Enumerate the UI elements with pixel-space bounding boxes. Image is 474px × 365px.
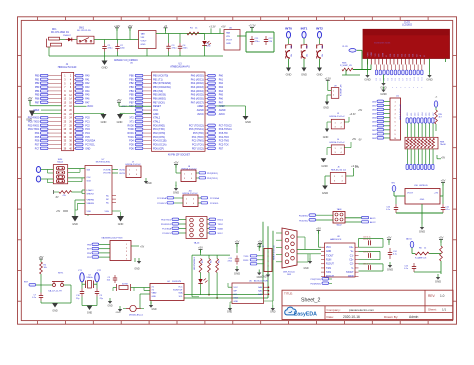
svg-text:PD3(TXD1): PD3(TXD1)	[207, 178, 218, 180]
svg-text:xxxxxxxx xxxx: xxxxxxxx xxxx	[374, 42, 391, 45]
svg-text:HDR-F-2.54 1x10: HDR-F-2.54 1x10	[400, 103, 402, 120]
svg-text:D2: D2	[384, 78, 386, 80]
svg-text:PC7-TOSC2: PC7-TOSC2	[219, 125, 233, 127]
svg-text:VIN: VIN	[141, 37, 145, 39]
svg-text:x: x	[413, 87, 414, 89]
svg-text:PD2(RXD1): PD2(RXD1)	[207, 173, 218, 175]
svg-text:PD3(RXD1): PD3(RXD1)	[310, 284, 321, 286]
svg-text:VCC: VCC	[234, 287, 239, 289]
svg-text:RST: RST	[24, 282, 29, 284]
svg-text:AREF: AREF	[122, 105, 128, 108]
svg-text:GND: GND	[270, 310, 276, 313]
svg-text:+3.3V: +3.3V	[349, 113, 356, 116]
svg-text:XTAL1: XTAL1	[153, 120, 161, 123]
svg-text:VIN: VIN	[391, 183, 395, 185]
svg-text:-5V: -5V	[55, 197, 59, 199]
svg-text:GND: GND	[303, 268, 308, 270]
svg-text:AGND: AGND	[197, 109, 204, 112]
svg-text:470u: 470u	[108, 48, 114, 50]
svg-text:PC6 (TOSC1): PC6 (TOSC1)	[189, 128, 204, 131]
svg-text:LD2: LD2	[415, 113, 417, 116]
svg-text:LD5: LD5	[425, 113, 427, 116]
svg-text:PB3: PB3	[35, 87, 40, 89]
svg-text:47k: 47k	[63, 195, 66, 197]
svg-text:+3.3V: +3.3V	[351, 164, 358, 168]
svg-text:GND: GND	[87, 312, 93, 315]
svg-text:PB2 (INT2/AIN0): PB2 (INT2/AIN0)	[153, 82, 171, 85]
svg-text:PC7/SCL: PC7/SCL	[85, 144, 95, 146]
svg-text:D5: D5	[395, 78, 397, 80]
svg-text:0.1u: 0.1u	[404, 268, 408, 270]
svg-text:-5V: -5V	[358, 140, 362, 142]
svg-text:GND: GND	[107, 306, 112, 308]
svg-text:GND: GND	[134, 268, 140, 271]
svg-text:+VS: +VS	[434, 193, 439, 195]
svg-text:0.1u: 0.1u	[32, 297, 36, 299]
svg-text:HDR-M-2.54 1x2: HDR-M-2.54 1x2	[329, 142, 345, 144]
svg-text:PC2: PC2	[85, 125, 90, 127]
svg-text:PC0/SCL: PC0/SCL	[157, 203, 167, 205]
svg-text:TA-08: TA-08	[440, 143, 446, 146]
svg-text:GND: GND	[364, 78, 370, 82]
svg-text:PB1 (T1): PB1 (T1)	[153, 78, 163, 81]
svg-text:+5V: +5V	[198, 246, 203, 250]
svg-text:PB3: PB3	[129, 87, 134, 89]
svg-text:D12: D12	[422, 77, 424, 80]
svg-text:PC1: PC1	[85, 121, 90, 123]
svg-text:470u: 470u	[255, 41, 261, 43]
svg-text:SW: SW	[322, 45, 324, 48]
svg-text:TXD1: TXD1	[128, 137, 135, 139]
svg-text:+5V: +5V	[441, 179, 446, 183]
svg-text:MCP4922-E/SL: MCP4922-E/SL	[96, 162, 111, 164]
svg-text:GND: GND	[151, 309, 156, 311]
svg-text:GND: GND	[317, 73, 323, 77]
svg-text:PD7 (OC2): PD7 (OC2)	[192, 147, 204, 150]
svg-text:PA6 (ADC6): PA6 (ADC6)	[191, 97, 204, 100]
svg-text:LDAC#: LDAC#	[87, 189, 95, 192]
svg-text:KEY1: KEY1	[58, 273, 64, 275]
svg-text:AMS1117-3.0_C486116: AMS1117-3.0_C486116	[114, 59, 138, 62]
svg-text:GND: GND	[419, 230, 425, 234]
svg-text:PB4 (SS): PB4 (SS)	[153, 90, 163, 93]
svg-text:LED: LED	[207, 46, 211, 48]
svg-text:GND: GND	[323, 136, 329, 139]
svg-text:VDD: VDD	[87, 211, 92, 213]
svg-text:0.1u: 0.1u	[386, 209, 390, 211]
svg-text:VDD: VDD	[371, 52, 373, 57]
svg-text:Admin: Admin	[409, 315, 419, 319]
svg-text:PB3 (OC0/AIN1): PB3 (OC0/AIN1)	[153, 86, 171, 89]
svg-text:+5V: +5V	[316, 227, 321, 231]
svg-text:LD1: LD1	[411, 113, 413, 116]
svg-text:NC: NC	[106, 195, 110, 197]
svg-text:GND: GND	[234, 301, 239, 303]
svg-text:TAB: TAB	[226, 32, 231, 35]
svg-text:HDR-M-2.54 3x20: HDR-M-2.54 3x20	[58, 67, 77, 69]
svg-text:DK1: DK1	[52, 29, 57, 31]
svg-text:PA0 (ADC0): PA0 (ADC0)	[191, 75, 204, 78]
svg-text:PD3(TX1): PD3(TX1)	[299, 220, 308, 222]
svg-text:TXD1: TXD1	[243, 256, 249, 258]
svg-text:PA1: PA1	[85, 78, 90, 81]
svg-text:GND: GND	[146, 182, 152, 185]
svg-text:LED PM3094-5: LED PM3094-5	[194, 257, 196, 270]
svg-text:+5V: +5V	[387, 236, 392, 240]
svg-text:PD5: PD5	[129, 144, 134, 146]
svg-text:PA7 (ADC7): PA7 (ADC7)	[191, 101, 204, 104]
svg-text:+5V: +5V	[439, 236, 444, 240]
svg-text:PA3: PA3	[219, 86, 224, 89]
svg-text:SK-12D12-D5: SK-12D12-D5	[77, 30, 91, 32]
svg-text:T2OUT: T2OUT	[346, 272, 354, 274]
svg-text:+5V: +5V	[352, 138, 357, 141]
svg-text:+5V: +5V	[221, 26, 226, 29]
svg-text:NC: NC	[106, 203, 110, 205]
svg-text:XT1: XT1	[129, 121, 134, 123]
svg-text:RXD1: RXD1	[243, 260, 249, 262]
svg-text:1/1: 1/1	[442, 308, 447, 312]
svg-text:PC1/SDA: PC1/SDA	[210, 197, 220, 200]
svg-text:SDA: SDA	[234, 297, 239, 300]
svg-text:PD2(RX1): PD2(RX1)	[299, 216, 308, 218]
svg-text:TXD2: TXD2	[218, 224, 224, 226]
svg-text:GND: GND	[322, 191, 328, 195]
svg-text:PA2: PA2	[85, 82, 90, 85]
svg-text:GND: GND	[261, 277, 266, 279]
svg-text:470u: 470u	[172, 47, 178, 49]
svg-text:R1IN: R1IN	[326, 259, 332, 261]
svg-text:PB0: PB0	[35, 76, 40, 78]
svg-text:PB4: PB4	[129, 91, 134, 93]
svg-text:PA5 (ADC5): PA5 (ADC5)	[191, 94, 204, 97]
svg-text:PB1: PB1	[35, 79, 40, 81]
svg-text:D4: D4	[391, 78, 393, 80]
svg-text:GND: GND	[326, 251, 331, 253]
svg-text:PB5 (MOSI): PB5 (MOSI)	[153, 94, 166, 97]
svg-text:R_SUMP_US: R_SUMP_US	[341, 84, 343, 96]
svg-text:+12V: +12V	[114, 24, 121, 28]
svg-text:GND: GND	[227, 310, 233, 313]
svg-text:0.1u: 0.1u	[446, 209, 450, 211]
svg-text:VSS: VSS	[105, 211, 110, 213]
svg-text:AVCC: AVCC	[197, 113, 204, 116]
svg-text:PA5: PA5	[219, 94, 224, 97]
svg-text:INT1: INT1	[301, 26, 308, 30]
svg-text:PC5/SDA: PC5/SDA	[162, 227, 172, 230]
svg-text:GND: GND	[226, 43, 231, 45]
svg-text:PC3: PC3	[85, 129, 90, 131]
svg-text:SW: SW	[291, 45, 293, 48]
svg-text:PD1-TXD0: PD1-TXD0	[28, 121, 40, 123]
svg-text:GND: GND	[435, 280, 441, 284]
svg-text:PA2: PA2	[219, 82, 224, 85]
svg-text:C2+: C2+	[349, 259, 354, 261]
svg-text:Drawn By:: Drawn By:	[384, 315, 398, 319]
svg-text:Sheet:: Sheet:	[428, 308, 437, 312]
svg-text:PC5 (TDI): PC5 (TDI)	[193, 132, 204, 135]
svg-text:D11: D11	[418, 77, 420, 80]
svg-text:ATMEGA164A-PU: ATMEGA164A-PU	[170, 66, 190, 69]
svg-text:LCD1602: LCD1602	[402, 25, 412, 27]
svg-text:GND: GND	[420, 199, 425, 201]
svg-text:GND: GND	[117, 120, 123, 124]
svg-text:TA-02: TA-02	[336, 224, 342, 227]
svg-text:+5V: +5V	[39, 255, 44, 259]
svg-text:RW: RW	[382, 53, 384, 56]
svg-text:GND: GND	[26, 118, 32, 122]
svg-text:piavanelectro.com: piavanelectro.com	[349, 308, 375, 312]
svg-text:RESET: RESET	[153, 105, 162, 108]
svg-text:C1+: C1+	[349, 247, 354, 249]
svg-text:SDA: SDA	[178, 292, 183, 295]
svg-text:PC1/SDA: PC1/SDA	[157, 197, 167, 200]
svg-text:ADC1: ADC1	[370, 217, 376, 220]
svg-text:PB6: PB6	[35, 98, 40, 100]
svg-text:TXD0: TXD0	[128, 129, 135, 131]
svg-text:VREFB: VREFB	[87, 203, 95, 205]
svg-text:PD6: PD6	[129, 148, 134, 150]
svg-text:INT2: INT2	[316, 26, 323, 30]
svg-text:VCC: VCC	[326, 247, 331, 249]
svg-text:R2IN: R2IN	[348, 276, 354, 278]
svg-text:C1-: C1-	[350, 255, 354, 257]
svg-text:10k: 10k	[322, 54, 324, 57]
svg-text:+12V: +12V	[325, 76, 332, 80]
svg-text:PC6-TOSC1: PC6-TOSC1	[219, 129, 233, 131]
svg-text:T1IN: T1IN	[326, 268, 331, 270]
svg-text:LD7: LD7	[433, 113, 435, 116]
svg-text:GND: GND	[102, 66, 108, 70]
svg-text:XT2: XT2	[129, 118, 134, 120]
svg-text:VO: VO	[375, 53, 377, 56]
svg-text:1N4007: 1N4007	[63, 35, 71, 37]
svg-text:PA4: PA4	[219, 90, 224, 93]
svg-text:PB4: PB4	[35, 91, 40, 93]
svg-text:PD3 (INT1): PD3 (INT1)	[153, 136, 165, 139]
svg-text:D3: D3	[388, 78, 390, 80]
svg-text:PA7: PA7	[219, 101, 224, 104]
svg-text:C15 0.1u: C15 0.1u	[363, 264, 371, 266]
svg-text:PD4 (OC1B): PD4 (OC1B)	[153, 140, 167, 143]
svg-text:PA0: PA0	[219, 75, 224, 78]
svg-text:32768: 32768	[122, 283, 128, 285]
svg-text:SCK: SCK	[87, 180, 92, 182]
svg-text:VOUTA: VOUTA	[103, 168, 111, 171]
svg-text:PA4 (ADC4): PA4 (ADC4)	[191, 90, 204, 93]
svg-text:+5V: +5V	[128, 24, 133, 28]
svg-text:PD6 (ICP): PD6 (ICP)	[153, 147, 164, 150]
svg-text:220n: 220n	[120, 48, 126, 50]
svg-text:LD4: LD4	[422, 113, 424, 116]
svg-text:PC0/SCL: PC0/SCL	[210, 203, 220, 205]
svg-text:V-: V-	[351, 268, 353, 270]
svg-text:PA6: PA6	[219, 97, 224, 100]
svg-text:PA2 (ADC2): PA2 (ADC2)	[191, 82, 204, 85]
svg-text:PC4/SCL: PC4/SCL	[162, 233, 172, 235]
svg-text:VBAT: VBAT	[152, 292, 158, 295]
svg-text:PA5: PA5	[85, 94, 90, 97]
svg-text:PB0 (XCK/T0): PB0 (XCK/T0)	[153, 75, 168, 78]
svg-text:LM78L05: LM78L05	[419, 185, 429, 187]
svg-text:PC7 (TOSC2): PC7 (TOSC2)	[189, 124, 204, 127]
svg-text:PA3: PA3	[85, 86, 90, 89]
svg-text:PD4: PD4	[35, 133, 40, 135]
svg-text:PB2: PB2	[35, 83, 40, 85]
svg-text:PA6: PA6	[85, 97, 90, 100]
svg-text:PC5: PC5	[85, 137, 90, 139]
svg-text:SQW/OUT: SQW/OUT	[173, 290, 183, 292]
svg-text:DS1307N: DS1307N	[172, 281, 182, 283]
svg-text:VLCD: VLCD	[342, 46, 348, 48]
svg-text:R1OUT: R1OUT	[326, 264, 334, 266]
svg-text:TAB: TAB	[141, 33, 146, 36]
svg-text:Company:: Company:	[327, 308, 341, 312]
svg-text:PC7: PC7	[35, 148, 40, 150]
svg-text:EasyEDA: EasyEDA	[294, 311, 317, 317]
svg-text:LD6: LD6	[429, 113, 431, 116]
svg-text:x: x	[400, 87, 401, 89]
svg-text:40 PIN ZIF SOCKET: 40 PIN ZIF SOCKET	[168, 154, 191, 157]
svg-text:GND: GND	[72, 223, 78, 226]
svg-text:OUTA: OUTA	[119, 168, 125, 171]
svg-text:PB1: PB1	[129, 79, 134, 81]
svg-text:C2-: C2-	[350, 264, 354, 266]
svg-text:VCC: VCC	[153, 109, 158, 112]
svg-text:+5V: +5V	[140, 247, 145, 249]
svg-text:PC3 (TMS): PC3 (TMS)	[192, 140, 204, 143]
svg-text:PA7: PA7	[85, 101, 90, 104]
svg-text:SDA2: SDA2	[218, 227, 224, 230]
svg-text:C14 0.1u: C14 0.1u	[363, 252, 371, 254]
svg-text:x: x	[396, 87, 397, 89]
svg-text:REV:: REV:	[428, 294, 435, 298]
svg-text:PC4 (TDO): PC4 (TDO)	[192, 136, 204, 139]
svg-text:+3.3V: +3.3V	[248, 24, 255, 28]
svg-text:PB5: PB5	[35, 95, 40, 97]
svg-text:DB9_Female: DB9_Female	[283, 271, 296, 273]
svg-text:PC2-TCK: PC2-TCK	[219, 144, 229, 146]
svg-text:SCL2: SCL2	[218, 233, 224, 235]
svg-text:2020-10-16: 2020-10-16	[343, 315, 360, 319]
svg-text:PC5-TDI: PC5-TDI	[219, 133, 228, 135]
svg-text:PB6: PB6	[129, 98, 134, 100]
svg-text:+5V: +5V	[441, 156, 446, 159]
svg-text:x: x	[421, 87, 422, 89]
svg-text:PD0 (RXD): PD0 (RXD)	[153, 124, 165, 127]
svg-text:GND: GND	[118, 223, 124, 226]
svg-text:PC0: PC0	[85, 118, 90, 120]
svg-text:AVCC: AVCC	[87, 105, 93, 108]
svg-text:D10: D10	[414, 77, 416, 80]
svg-text:+3.3V: +3.3V	[209, 26, 216, 29]
svg-text:VCC: VCC	[178, 287, 183, 289]
svg-text:Date:: Date:	[327, 315, 335, 319]
svg-text:C13 0.1u: C13 0.1u	[363, 239, 371, 241]
svg-text:SW1: SW1	[79, 27, 85, 29]
svg-text:TA-04: TA-04	[57, 160, 63, 163]
svg-text:PD5/RXD2: PD5/RXD2	[161, 224, 172, 226]
svg-text:x: x	[417, 87, 418, 89]
svg-text:GND: GND	[321, 164, 327, 168]
svg-text:T1OUT: T1OUT	[326, 255, 334, 257]
svg-text:HDR-F-2.54 1x4: HDR-F-2.54 1x4	[274, 245, 276, 260]
svg-text:DR2032-BS-2-1: DR2032-BS-2-1	[129, 315, 144, 317]
svg-text:+5V: +5V	[174, 161, 179, 165]
svg-text:DC-072-168A: DC-072-168A	[51, 31, 66, 34]
svg-text:+5V: +5V	[56, 211, 61, 213]
svg-text:R_0AMP_US: R_0AMP_US	[415, 256, 427, 259]
svg-text:VREFA: VREFA	[87, 199, 95, 202]
svg-text:x: x	[405, 87, 406, 89]
svg-text:220n: 220n	[183, 47, 189, 49]
svg-text:GND: GND	[141, 44, 146, 46]
svg-text:AGND: AGND	[219, 109, 226, 112]
svg-text:GND: GND	[101, 120, 107, 124]
svg-text:PA3 (ADC3): PA3 (ADC3)	[191, 86, 204, 89]
svg-text:AVCC: AVCC	[219, 113, 226, 116]
svg-text:XTAL2: XTAL2	[153, 117, 161, 120]
svg-text:PD3-TXD1: PD3-TXD1	[28, 129, 40, 131]
svg-text:PB0: PB0	[129, 76, 134, 78]
svg-text:ADC0: ADC0	[406, 238, 412, 241]
svg-text:AT24C02-PU/M: AT24C02-PU/M	[254, 279, 268, 282]
svg-text:GND: GND	[116, 312, 121, 314]
svg-text:HDR-M-2.54 2x2: HDR-M-2.54 2x2	[331, 170, 347, 172]
svg-text:LCD1: LCD1	[404, 22, 411, 24]
svg-text:GND: GND	[387, 268, 393, 272]
svg-text:GND: GND	[245, 120, 251, 124]
svg-text:RXD1: RXD1	[127, 133, 134, 135]
svg-text:AREF: AREF	[197, 105, 204, 108]
svg-text:Sheet_2: Sheet_2	[301, 298, 320, 304]
svg-text:OUTB: OUTB	[119, 173, 125, 175]
svg-text:PC4-TDO: PC4-TDO	[219, 137, 229, 139]
svg-text:PC2 (TCK): PC2 (TCK)	[192, 143, 204, 146]
svg-text:PA4: PA4	[85, 90, 90, 93]
svg-text:TITLE:: TITLE:	[284, 291, 293, 295]
svg-text:D7: D7	[403, 78, 405, 80]
svg-text:GND: GND	[152, 296, 157, 298]
svg-text:HDR-M-2.54 1x2: HDR-M-2.54 1x2	[329, 116, 345, 118]
svg-text:PB5: PB5	[129, 95, 134, 97]
svg-text:PD4: PD4	[129, 141, 134, 143]
svg-text:PD7: PD7	[219, 148, 224, 150]
svg-text:KA05NNV-2x06-PTV03: KA05NNV-2x06-PTV03	[102, 236, 124, 239]
svg-text:PB7: PB7	[35, 102, 40, 104]
svg-text:PB6 (MISO): PB6 (MISO)	[153, 97, 166, 100]
svg-text:+5V: +5V	[28, 96, 33, 100]
svg-text:PD7: PD7	[35, 144, 40, 146]
svg-text:ADC2: ADC2	[370, 221, 376, 224]
svg-text:PA0: PA0	[85, 75, 90, 78]
svg-text:GND: GND	[426, 78, 432, 82]
svg-text:D0: D0	[376, 78, 378, 80]
svg-text:10k: 10k	[307, 54, 309, 57]
svg-text:RXD0: RXD0	[127, 125, 134, 127]
svg-text:x: x	[409, 87, 410, 89]
svg-text:GND: GND	[323, 107, 329, 110]
svg-text:R_50MP_US: R_50MP_US	[340, 65, 352, 67]
svg-text:+5V: +5V	[258, 240, 263, 244]
svg-text:AREF: AREF	[219, 105, 226, 108]
svg-text:+5V: +5V	[235, 240, 240, 244]
svg-text:PC6/SDA: PC6/SDA	[85, 140, 95, 143]
svg-text:x: x	[392, 87, 393, 89]
svg-text:INT0: INT0	[285, 26, 292, 30]
svg-text:RXD2: RXD2	[218, 219, 224, 221]
svg-text:HANDSOCK: HANDSOCK	[330, 238, 342, 241]
